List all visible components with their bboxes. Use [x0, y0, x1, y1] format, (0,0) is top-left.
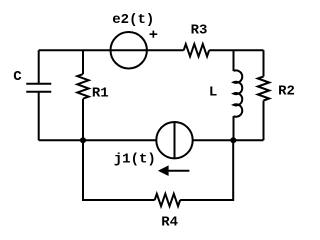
- svg-text:R1: R1: [92, 85, 109, 101]
- svg-text:R2: R2: [278, 84, 295, 100]
- svg-text:R4: R4: [161, 215, 178, 231]
- svg-text:L: L: [209, 85, 217, 101]
- svg-text:R3: R3: [191, 23, 208, 39]
- svg-text:j1(t): j1(t): [114, 152, 156, 168]
- svg-text:C: C: [13, 69, 22, 85]
- svg-text:e2(t): e2(t): [112, 12, 154, 28]
